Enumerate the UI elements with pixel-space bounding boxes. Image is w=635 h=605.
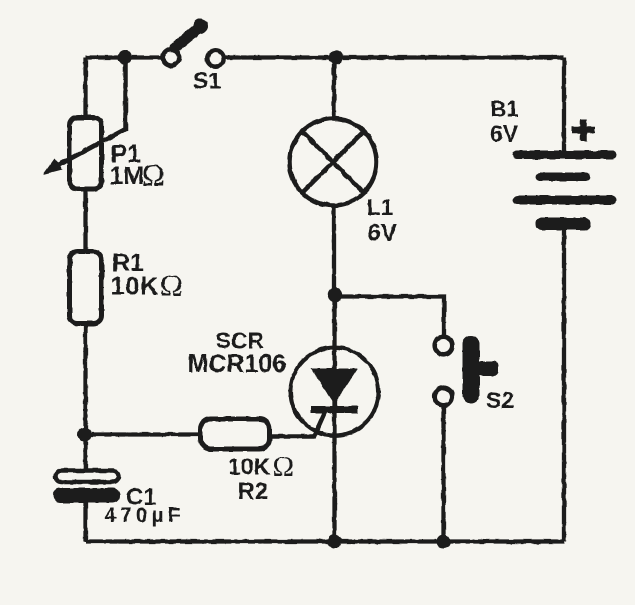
potentiometer P1 wiper wire [54, 58, 126, 168]
battery B1 plate short [536, 173, 591, 182]
wire through SCR (anode-cathode) [332, 297, 336, 542]
switch S1 lever [175, 27, 201, 48]
SCR gate wire [269, 409, 327, 437]
node junction top of P1 wiper [117, 50, 132, 65]
lamp L1 [290, 119, 377, 206]
SCR U1 circle [291, 348, 379, 436]
pushbutton S2 top contact [435, 337, 453, 355]
wire lamp top [332, 58, 336, 121]
node junction SCR cathode / bottom wire [328, 535, 342, 549]
node junction R1 / C1 / R2 [78, 428, 92, 442]
svg-text:Ω: Ω [142, 157, 165, 192]
wire right vertical (battery branch) [562, 58, 566, 542]
svg-text:S1: S1 [193, 68, 221, 94]
wire top-left horizontal [86, 55, 162, 59]
capacitor C1 bottom plate [53, 488, 120, 503]
wire R1/C1 junction to R2 [85, 432, 202, 436]
battery B1 plate short bottom [536, 218, 591, 231]
wire top-right horizontal [224, 55, 564, 59]
wire bottom horizontal [86, 539, 565, 543]
svg-text:10K: 10K [228, 454, 271, 480]
svg-text:S2: S2 [486, 387, 514, 413]
svg-text:R2: R2 [238, 478, 269, 505]
SCR triangle (anode) [311, 369, 358, 405]
switch S1 pole circle [163, 49, 179, 65]
SCR cathode bar [311, 406, 358, 413]
svg-text:6V: 6V [368, 220, 397, 247]
svg-text:L1: L1 [367, 194, 394, 220]
svg-text:10K: 10K [111, 273, 160, 301]
battery B1 plate long top [513, 151, 617, 160]
svg-text:MCR106: MCR106 [188, 350, 287, 378]
resistor R2 body [201, 419, 270, 449]
battery B1 plate long [513, 196, 617, 205]
svg-text:1M: 1M [110, 162, 145, 190]
svg-text:Ω: Ω [160, 268, 183, 303]
potentiometer P1 body [70, 118, 102, 190]
pushbutton S2 bottom contact [435, 388, 453, 406]
svg-text:470µF: 470µF [105, 504, 185, 527]
svg-text:Ω: Ω [273, 451, 295, 483]
svg-text:B1: B1 [491, 97, 519, 122]
wire junction to S2 branch [335, 297, 445, 337]
wire left vertical [83, 58, 87, 542]
svg-text:6V: 6V [490, 121, 519, 147]
wire S2 bottom [441, 406, 445, 542]
wire lamp bottom to gate junction [332, 204, 336, 297]
node junction S2 / bottom wire [437, 535, 451, 549]
battery plus sign [572, 119, 595, 141]
capacitor C1 top plate [56, 471, 119, 483]
switch S1 throw circle [207, 50, 223, 66]
resistor R1 body [70, 252, 102, 324]
potentiometer P1 wiper arrowhead [43, 159, 63, 175]
node junction lamp / top wire [329, 50, 343, 64]
node junction lamp / SCR / S2 [328, 288, 342, 302]
pushbutton S2 actuator [463, 336, 480, 404]
